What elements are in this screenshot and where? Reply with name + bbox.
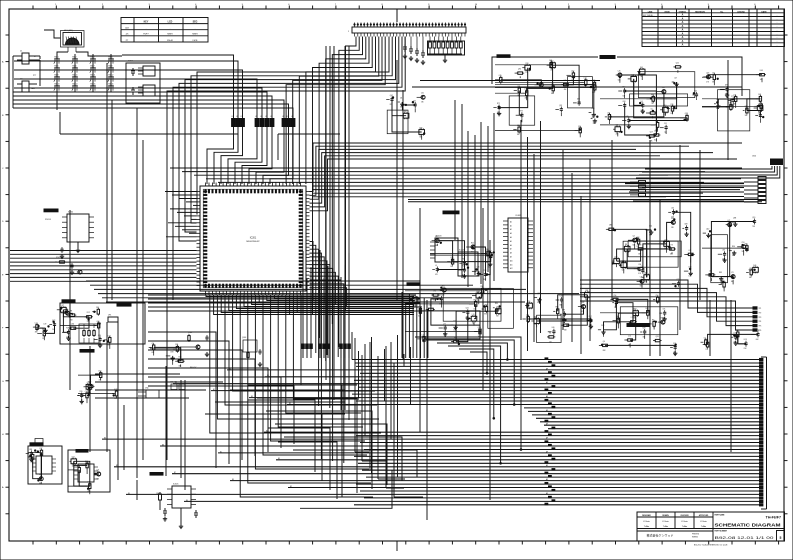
- svg-text:R19: R19: [80, 391, 83, 393]
- border tick marks right edge: [784, 35, 788, 514]
- CN5 fan wires: [636, 166, 780, 178]
- stub wires at IC201 left pins: [165, 192, 197, 237]
- svg-text:R25: R25: [471, 242, 474, 244]
- vertical bus x 560-600: [563, 150, 590, 354]
- svg-text:FM A1: FM A1: [167, 39, 174, 42]
- long tick below frame at x 397: [396, 541, 398, 551]
- svg-text:C88: C88: [29, 449, 32, 451]
- svg-text:91K: 91K: [638, 273, 641, 275]
- keypad bus elbows to EMI beads: [13, 55, 293, 118]
- svg-text:R26: R26: [420, 127, 423, 129]
- svg-text:TP4: TP4: [759, 321, 762, 323]
- svg-text:C49: C49: [43, 324, 46, 326]
- flex cable bus wires: [102, 358, 763, 506]
- svg-text:IC201: IC201: [250, 237, 257, 240]
- svg-text:D7: D7: [453, 321, 455, 323]
- svg-text:IC305: IC305: [173, 484, 179, 486]
- svg-text:L47: L47: [674, 77, 677, 79]
- svg-text:B92-08 12-01 1/1 00: B92-08 12-01 1/1 00: [715, 536, 774, 540]
- svg-text:L60: L60: [671, 208, 674, 210]
- svg-text:R58: R58: [634, 309, 637, 311]
- svg-text:82K: 82K: [564, 330, 567, 332]
- svg-text:D19: D19: [744, 339, 747, 341]
- svg-text:CHECKED: CHECKED: [680, 515, 689, 517]
- svg-text:Q98: Q98: [585, 290, 588, 292]
- svg-text:72K: 72K: [70, 320, 73, 322]
- IC304 DIP body: [74, 450, 98, 483]
- svg-text:D51: D51: [96, 307, 99, 309]
- svg-text:A: A: [682, 17, 684, 20]
- svg-text:R73: R73: [520, 111, 523, 113]
- svg-text:B7: B7: [174, 472, 176, 474]
- left connector feed wires: [13, 56, 17, 108]
- svg-text:Q71: Q71: [61, 305, 64, 307]
- CN1 right-side resistor array: [428, 37, 465, 63]
- svg-text:A: A: [682, 44, 684, 47]
- svg-text:Q19: Q19: [752, 217, 755, 219]
- svg-text:C64: C64: [72, 457, 75, 459]
- box IC404: [458, 250, 478, 277]
- AF switch cluster: [523, 290, 594, 343]
- IC402 support parts: [430, 236, 494, 281]
- svg-text:R21: R21: [535, 316, 538, 318]
- twin option boxes: [170, 382, 185, 390]
- svg-text:C20: C20: [578, 126, 581, 128]
- svg-text:R38: R38: [66, 328, 69, 330]
- svg-text:APPROVED: APPROVED: [699, 514, 709, 517]
- svg-text:Q10: Q10: [98, 335, 101, 337]
- svg-text:A: A: [682, 36, 684, 39]
- svg-text:48K: 48K: [716, 108, 719, 110]
- svg-text:Q55: Q55: [676, 62, 679, 64]
- svg-text:D73: D73: [439, 294, 442, 296]
- svg-text:Q14: Q14: [526, 314, 529, 316]
- staircase bus into right edge pads: [580, 280, 761, 332]
- svg-text:A: A: [682, 40, 684, 43]
- svg-text:A: A: [682, 32, 684, 35]
- svg-text:DRAWN: DRAWN: [662, 514, 669, 517]
- keypad row bus wires: [14, 61, 122, 88]
- svg-text:94K: 94K: [97, 478, 100, 480]
- vertical bus below CN1: [326, 46, 349, 420]
- svg-text:B6: B6: [104, 438, 106, 440]
- svg-text:L2: L2: [241, 116, 243, 118]
- svg-text:SCHEMATIC DIAGRAM: SCHEMATIC DIAGRAM: [715, 522, 782, 527]
- svg-text:C63: C63: [593, 114, 596, 116]
- svg-text:Q21: Q21: [466, 308, 469, 310]
- audio PA IC305 DIP-8: [150, 473, 198, 529]
- power input circuit: [77, 371, 118, 404]
- svg-text:21K: 21K: [549, 341, 552, 343]
- svg-text:19K: 19K: [450, 266, 453, 268]
- svg-text:D81: D81: [412, 295, 415, 297]
- mid bus horizontal group B: [170, 168, 742, 197]
- svg-text:53K: 53K: [671, 217, 674, 219]
- svg-text:L2: L2: [270, 116, 272, 118]
- bottom-left vertical wires: [90, 322, 185, 500]
- svg-text:99K: 99K: [484, 313, 487, 315]
- vertical bundle x 402-428 into flex bus: [402, 292, 428, 358]
- svg-text:T.Abe: T.Abe: [663, 525, 669, 528]
- svg-text:78K: 78K: [752, 226, 755, 228]
- svg-text:R83: R83: [719, 272, 722, 274]
- long signal wires upper right: [412, 57, 742, 96]
- svg-text:R4: R4: [549, 332, 551, 334]
- EMI bead filters L201-L210: [232, 116, 295, 131]
- svg-text:LINE: LINE: [648, 11, 653, 13]
- svg-text:No.: No.: [720, 11, 724, 13]
- svg-text:B4: B4: [128, 493, 130, 495]
- svg-text:C27: C27: [39, 448, 42, 450]
- svg-text:A: A: [682, 14, 684, 17]
- svg-text:95K: 95K: [593, 123, 596, 125]
- svg-text:D49: D49: [760, 70, 763, 72]
- svg-text:D69: D69: [640, 67, 643, 69]
- svg-text:B3: B3: [278, 458, 280, 460]
- svg-text:C61: C61: [421, 93, 424, 95]
- svg-text:M30622M4-FP: M30622M4-FP: [246, 241, 260, 243]
- svg-text:Q42: Q42: [706, 229, 709, 231]
- svg-text:R8: R8: [625, 244, 627, 246]
- svg-text:81K: 81K: [732, 255, 735, 257]
- svg-text:CHECKD: CHECKD: [737, 11, 745, 13]
- svg-text:15K: 15K: [689, 276, 692, 278]
- svg-text:Q4: Q4: [603, 341, 605, 343]
- svg-text:64K: 64K: [749, 277, 752, 279]
- svg-text:B2: B2: [290, 486, 292, 488]
- svg-text:X24C01: X24C01: [45, 219, 51, 221]
- IF amplifier cluster: [606, 208, 695, 290]
- svg-text:B5: B5: [289, 403, 291, 405]
- svg-text:Q98: Q98: [684, 224, 687, 226]
- svg-text:L2: L2: [282, 116, 284, 118]
- svg-text:L22: L22: [422, 334, 425, 336]
- svg-text:B9: B9: [232, 479, 234, 481]
- svg-text:B1: B1: [220, 451, 222, 453]
- bus into right edge y 183-205: [625, 183, 744, 201]
- svg-text:A: A: [682, 25, 684, 28]
- svg-text:B8: B8: [162, 444, 164, 446]
- svg-text:B51-8 12 71-08-21 KENWOOD CO: B51-8 12 71-08-21 KENWOOD CO 12-08: [694, 544, 727, 546]
- svg-text:PRINTED: PRINTED: [692, 534, 700, 536]
- svg-text:Q23: Q23: [685, 113, 688, 115]
- regulator Q303 cluster: [242, 337, 262, 367]
- svg-text:M/MR: M/MR: [167, 34, 173, 36]
- row labels PTT LAMP: [31, 56, 37, 90]
- svg-text:L57: L57: [694, 90, 697, 92]
- svg-text:45K: 45K: [564, 89, 567, 91]
- power rail wires: [95, 374, 223, 398]
- left-edge connector J1: [17, 51, 40, 87]
- svg-text:B1: B1: [213, 389, 215, 391]
- svg-text:95K: 95K: [517, 134, 520, 136]
- svg-text:CN4: CN4: [145, 388, 148, 390]
- svg-text:93K: 93K: [745, 115, 748, 117]
- regulator Q302 cluster: [180, 332, 209, 369]
- IC201 right pin fan-out lower half downward: [310, 242, 347, 464]
- mixer cluster: [598, 295, 678, 356]
- condenser microphone MC1: [44, 30, 122, 58]
- svg-text:SEG: SEG: [193, 21, 198, 23]
- svg-text:46K: 46K: [442, 294, 445, 296]
- svg-text:C94: C94: [527, 301, 530, 303]
- resistor array RA301: [79, 304, 131, 353]
- svg-text:Q4: Q4: [633, 236, 635, 238]
- svg-text:IC402: IC402: [515, 215, 521, 217]
- svg-text:D4: D4: [400, 97, 402, 99]
- svg-text:L19: L19: [472, 314, 475, 316]
- flex bus vertical feeders: [352, 332, 522, 477]
- svg-text:SW26: SW26: [72, 66, 76, 68]
- svg-text:36K: 36K: [35, 332, 38, 334]
- svg-text:PTT: PTT: [33, 75, 36, 77]
- wire from top border to CN1: [396, 9, 398, 22]
- svg-text:LCD: LCD: [168, 21, 173, 23]
- svg-text:A: A: [682, 29, 684, 32]
- svg-text:38K: 38K: [734, 342, 737, 344]
- svg-text:PART NUMBER: PART NUMBER: [715, 530, 728, 533]
- svg-text:R90: R90: [745, 244, 748, 246]
- svg-text:L2: L2: [265, 116, 267, 118]
- long horizontal wires lower-left: [205, 390, 345, 414]
- svg-text:IC202: IC202: [68, 212, 73, 214]
- svg-text:JP1: JP1: [108, 315, 111, 317]
- page-crossing vertical wires right: [612, 60, 731, 452]
- svg-text:D98: D98: [171, 351, 174, 353]
- svg-text:L57: L57: [749, 268, 752, 270]
- vertical bus x 520-545: [521, 120, 541, 351]
- svg-text:60K: 60K: [756, 339, 759, 341]
- svg-text:D31: D31: [758, 94, 761, 96]
- diode block D201: [126, 61, 160, 104]
- svg-text:T.Abe: T.Abe: [701, 525, 707, 528]
- svg-text:K.Sato: K.Sato: [681, 520, 688, 523]
- svg-text:Q7: Q7: [704, 338, 706, 340]
- svg-text:TP1: TP1: [759, 308, 762, 310]
- svg-text:L2: L2: [236, 116, 238, 118]
- svg-text:L71: L71: [731, 272, 734, 274]
- border tick marks bottom edge: [33, 541, 779, 545]
- border tick marks left edge: [2, 35, 9, 514]
- svg-text:5: 5: [780, 536, 782, 540]
- svg-text:L5: L5: [435, 265, 437, 267]
- IC303 DIP body: [32, 439, 56, 475]
- nested corner bus lower-center: [248, 385, 417, 497]
- svg-text:L2: L2: [255, 116, 257, 118]
- mid bus left of center y 270-300: [86, 281, 579, 302]
- svg-text:SW23: SW23: [90, 57, 94, 59]
- svg-text:TP2: TP2: [759, 312, 762, 314]
- svg-text:SW24: SW24: [108, 57, 112, 59]
- svg-text:株式会社ケンウッド: 株式会社ケンウッド: [647, 533, 674, 538]
- svg-text:G: G: [2, 381, 4, 383]
- svg-text:C51: C51: [664, 123, 667, 125]
- svg-text:L2: L2: [287, 116, 289, 118]
- svg-text:DATE: DATE: [761, 10, 767, 13]
- svg-text:PART NAME: PART NAME: [715, 514, 726, 517]
- svg-text:Q3: Q3: [152, 343, 154, 345]
- svg-text:C45: C45: [499, 75, 502, 77]
- svg-text:R28: R28: [643, 327, 646, 329]
- svg-text:SW27: SW27: [90, 66, 94, 68]
- microphone amp Q301: [33, 320, 56, 340]
- svg-text:R46: R46: [753, 265, 756, 267]
- svg-text:L21: L21: [35, 323, 38, 325]
- svg-text:B5: B5: [116, 465, 118, 467]
- svg-text:D82: D82: [581, 302, 584, 304]
- VCO cluster: [702, 70, 766, 131]
- svg-text:C72: C72: [731, 96, 734, 98]
- svg-text:D50: D50: [99, 371, 102, 373]
- vertical bus x 455-500: [455, 100, 494, 287]
- title block: [637, 512, 785, 546]
- svg-text:K.Sato: K.Sato: [662, 520, 669, 523]
- svg-text:36K: 36K: [641, 110, 644, 112]
- EEPROM IC303: [26, 443, 62, 485]
- bead output elbows to IC201 top pins: [207, 131, 293, 184]
- svg-text:Q93: Q93: [656, 336, 659, 338]
- small connector CN4: [138, 388, 159, 399]
- svg-text:C16: C16: [628, 335, 631, 337]
- svg-text:72K: 72K: [651, 103, 654, 105]
- svg-text:C36: C36: [638, 264, 641, 266]
- svg-text:Q88: Q88: [733, 217, 736, 219]
- front-end RF cluster: [702, 217, 758, 292]
- svg-text:R57: R57: [589, 316, 592, 318]
- svg-text:T.Abe: T.Abe: [682, 525, 688, 528]
- LCD bus group B elbows to IC left side: [167, 37, 405, 461]
- svg-text:D10: D10: [550, 61, 553, 63]
- op-amp IC304: [68, 450, 110, 494]
- detector cluster: [405, 283, 513, 345]
- svg-text:SW21: SW21: [54, 57, 58, 59]
- svg-text:SW25: SW25: [54, 66, 58, 68]
- svg-text:WIRING: WIRING: [692, 537, 699, 539]
- svg-text:R39: R39: [477, 291, 480, 293]
- flex bus right vertical bar: [761, 357, 767, 509]
- svg-text:A: A: [682, 21, 684, 24]
- IC201 bottom pin wires to lower bus: [206, 295, 414, 498]
- svg-text:95K: 95K: [496, 316, 499, 318]
- svg-text:K.Sato: K.Sato: [700, 520, 707, 523]
- svg-text:D58: D58: [175, 344, 178, 346]
- long wire at y 508: [300, 470, 392, 508]
- svg-text:TP5: TP5: [759, 326, 762, 328]
- svg-text:B4: B4: [266, 431, 268, 433]
- jumper chip JP1: [108, 315, 118, 323]
- svg-text:C91: C91: [663, 309, 666, 311]
- svg-text:Q64: Q64: [537, 293, 540, 295]
- svg-text:46K: 46K: [497, 112, 500, 114]
- svg-text:B6: B6: [267, 375, 269, 377]
- svg-text:C10: C10: [560, 295, 563, 297]
- svg-text:SW29: SW29: [54, 75, 58, 77]
- svg-text:R58: R58: [474, 299, 477, 301]
- svg-text:R72: R72: [497, 103, 500, 105]
- svg-text:C39: C39: [670, 104, 673, 106]
- svg-text:L2: L2: [260, 116, 262, 118]
- svg-text:FM B: FM B: [193, 40, 198, 42]
- svg-text:TP3: TP3: [759, 317, 762, 319]
- SSOP IC402: [443, 211, 533, 272]
- svg-text:B3: B3: [251, 396, 253, 398]
- svg-text:L80: L80: [552, 327, 555, 329]
- net label bar TXB: [600, 56, 615, 59]
- svg-text:REVISION: REVISION: [695, 11, 705, 13]
- svg-text:TP6: TP6: [759, 330, 762, 332]
- svg-text:74K: 74K: [421, 102, 424, 104]
- svg-text:Q26: Q26: [706, 72, 709, 74]
- svg-text:L60: L60: [517, 125, 520, 127]
- svg-text:F6/F7: F6/F7: [143, 34, 149, 36]
- svg-text:Q54: Q54: [649, 225, 652, 227]
- svg-text:Q17: Q17: [650, 131, 653, 133]
- svg-text:R89: R89: [651, 94, 654, 96]
- riser wires x 355-400 from flex bus: [355, 338, 423, 497]
- svg-text:SW22: SW22: [72, 57, 76, 59]
- svg-text:77K: 77K: [589, 325, 592, 327]
- svg-text:R18: R18: [526, 63, 529, 65]
- svg-text:71K: 71K: [705, 349, 708, 351]
- svg-text:L8: L8: [709, 270, 711, 272]
- IC201 right pin fan-out upper half to mid bus: [310, 143, 743, 211]
- svg-text:IC403: IC403: [436, 236, 442, 238]
- keypad column wires: [57, 54, 111, 92]
- left-edge connector J2: [17, 79, 37, 93]
- svg-text:Q2: Q2: [616, 125, 618, 127]
- svg-text:M/MR: M/MR: [192, 34, 198, 36]
- svg-text:L26: L26: [618, 70, 621, 72]
- nested corner bus mid-left: [148, 332, 294, 468]
- svg-text:TH-F6/F7: TH-F6/F7: [766, 516, 781, 520]
- page-crossing vertical wires center: [397, 60, 490, 520]
- svg-text:Q54: Q54: [71, 324, 74, 326]
- svg-text:Q303: Q303: [242, 337, 246, 339]
- svg-text:Q52: Q52: [559, 105, 562, 107]
- buffer amp Q401 under CN1: [386, 93, 425, 140]
- svg-text:Q92: Q92: [636, 237, 639, 239]
- serial EEPROM IC202 left of microprocessor: [44, 209, 94, 259]
- svg-text:75K: 75K: [663, 318, 666, 320]
- key assignment table: [121, 18, 208, 43]
- bus wires into IC201 left pins from frame: [10, 251, 197, 282]
- LCD connector CN1: [348, 23, 466, 37]
- svg-text:C68: C68: [623, 101, 626, 103]
- long horizontal wire pair across left: [60, 112, 340, 160]
- svg-text:81K: 81K: [744, 348, 747, 350]
- svg-text:FST ISSUE . .: FST ISSUE . .: [643, 15, 655, 17]
- connector CN5 right edge: [630, 156, 783, 204]
- svg-text:L83: L83: [722, 250, 725, 252]
- svg-text:K.Sato: K.Sato: [643, 520, 650, 523]
- revision history table: [642, 9, 785, 47]
- mid-left horizontal wires: [148, 295, 424, 311]
- svg-text:R87: R87: [404, 111, 407, 113]
- border tick marks top edge: [33, 4, 779, 9]
- antenna switch cluster: [701, 330, 760, 351]
- svg-text:Q22: Q22: [571, 71, 574, 73]
- svg-text:R32: R32: [442, 285, 445, 287]
- svg-text:R83: R83: [486, 249, 489, 251]
- svg-text:54K: 54K: [495, 312, 498, 314]
- svg-text:R30: R30: [495, 303, 498, 305]
- svg-text:R12: R12: [87, 312, 90, 314]
- svg-text:D89: D89: [562, 310, 565, 312]
- svg-text:B4: B4: [229, 368, 231, 370]
- CN1 center decoupling parts: [403, 37, 425, 65]
- black net label bar AF OUT: [627, 324, 649, 327]
- resonator parts left margin: [55, 257, 82, 275]
